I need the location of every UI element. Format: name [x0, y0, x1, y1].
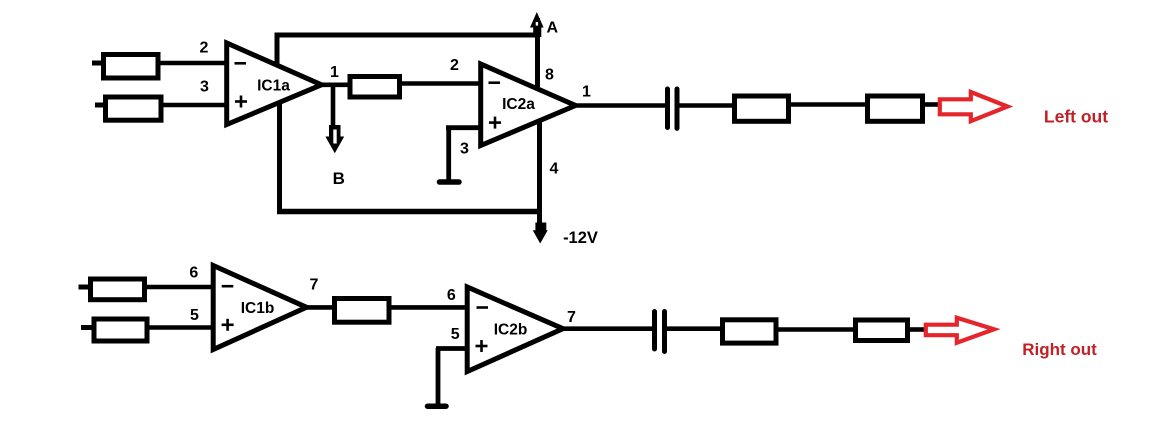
svg-text:1: 1 — [330, 64, 339, 81]
wire IC2b pin5 to ground — [436, 346, 468, 351]
resistor R2 (IC1a pin3 input) — [95, 97, 161, 120]
wire output node down to B — [331, 85, 336, 126]
resistor R3 (IC1a out to IC2a) — [350, 77, 400, 98]
svg-text:-12V: -12V — [563, 229, 598, 247]
Left out arrow — [940, 92, 1008, 121]
ground (IC2b) — [428, 348, 447, 406]
wire IC1a V+ to top rail — [275, 33, 280, 65]
svg-text:6: 6 — [189, 265, 198, 282]
power arrow A — [530, 12, 544, 37]
svg-text:3: 3 — [460, 141, 469, 158]
wire bottom rail (-12V net) — [277, 209, 542, 215]
svg-text:IC1a: IC1a — [257, 78, 290, 95]
wire R6 to IC1b pin6 — [147, 285, 213, 290]
resistor R4 — [735, 96, 789, 121]
resistor R10 — [856, 320, 908, 341]
wire R9 to R10 — [779, 327, 856, 332]
svg-text:2: 2 — [450, 57, 459, 74]
resistor R6 (IC1b pin6 input) — [79, 279, 145, 300]
svg-text:6: 6 — [447, 287, 456, 304]
wire IC1a output node — [322, 83, 350, 88]
svg-text:7: 7 — [567, 309, 576, 326]
svg-text:7: 7 — [310, 277, 319, 294]
wire R2 to IC1a pin3 — [161, 103, 227, 108]
svg-text:IC1b: IC1b — [241, 300, 275, 317]
svg-text:A: A — [547, 20, 559, 37]
wire IC1a V- to bottom rail — [277, 103, 282, 214]
svg-text:IC2a: IC2a — [502, 96, 535, 113]
resistor R7 (IC1b pin5 input) — [81, 319, 147, 341]
wire C2 to R9 — [667, 326, 721, 331]
wire R10 to Right out — [910, 327, 925, 332]
resistor R5 — [868, 96, 923, 121]
ground (IC2a) — [440, 127, 460, 182]
wire IC2a pin8 vertical — [535, 18, 540, 89]
wire IC2a pin3 to ground — [446, 125, 481, 130]
wire C1 to R4 — [680, 103, 734, 108]
svg-text:5: 5 — [451, 326, 460, 343]
svg-text:IC2b: IC2b — [494, 322, 528, 339]
resistor R9 — [723, 320, 777, 343]
svg-text:5: 5 — [190, 307, 199, 324]
svg-text:Left out: Left out — [1044, 107, 1108, 127]
svg-text:B: B — [333, 169, 345, 188]
op-amp IC1b — [213, 266, 306, 350]
capacitor C1 — [668, 89, 678, 128]
svg-text:4: 4 — [550, 161, 559, 178]
svg-text:Right out: Right out — [1022, 340, 1097, 359]
wire R7 to IC1b pin5 — [150, 325, 214, 330]
Right out arrow — [926, 318, 994, 343]
svg-text:2: 2 — [200, 40, 209, 57]
svg-text:8: 8 — [545, 67, 554, 84]
wire top rail (node A) — [275, 33, 541, 38]
op-amp IC2a — [481, 64, 576, 146]
wire IC2a out to C1 — [576, 103, 665, 108]
wire R8 to IC2b pin6 — [392, 305, 468, 310]
svg-text:3: 3 — [200, 79, 209, 96]
wire R3 to IC2a pin2 — [402, 81, 481, 86]
svg-text:1: 1 — [582, 84, 591, 101]
wire R5 to Left out — [925, 102, 939, 107]
node B arrow — [325, 125, 344, 153]
op-amp IC2b — [467, 287, 563, 372]
wire IC1b out to R8 — [307, 305, 334, 310]
wire IC2a pin4 vertical — [537, 121, 542, 224]
wire R4 to R5 — [791, 102, 867, 107]
resistor R8 — [335, 299, 390, 323]
power arrow -12V — [533, 223, 548, 244]
capacitor C2 — [655, 312, 665, 352]
wire IC2b out to C2 — [564, 326, 653, 331]
op-amp IC1a — [227, 43, 322, 125]
wire R1 to IC1a pin2 — [158, 61, 227, 66]
resistor R1 (IC1a pin2 input) — [92, 55, 158, 79]
